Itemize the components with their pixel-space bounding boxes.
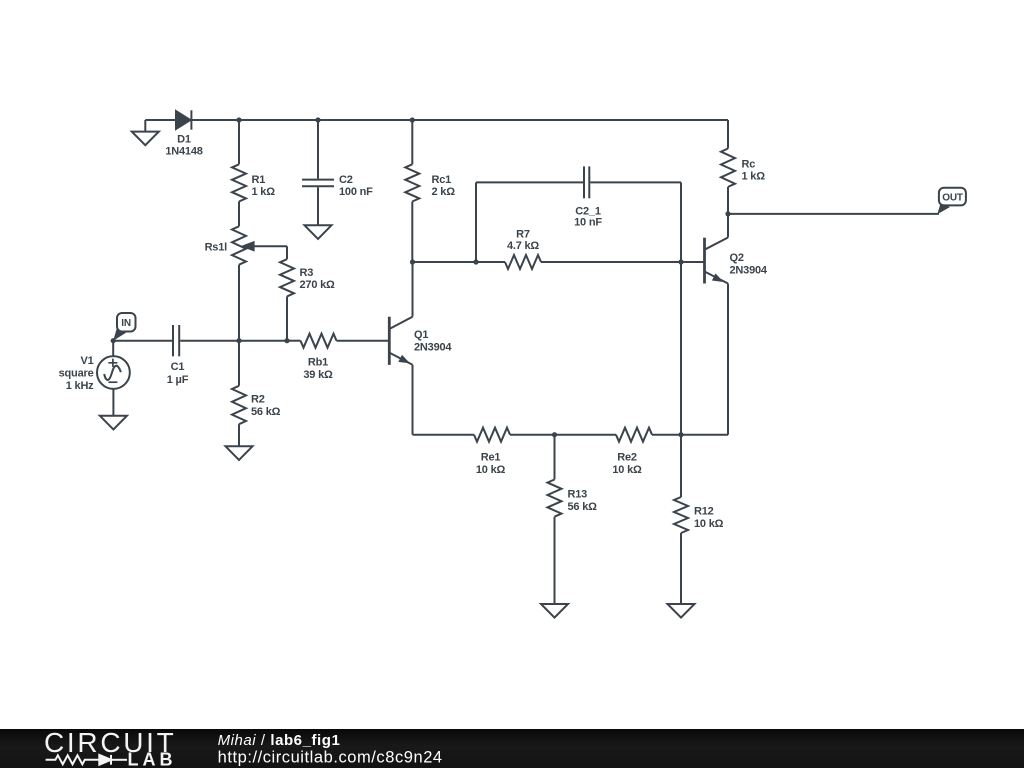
svg-text:10 nF: 10 nF <box>574 217 602 229</box>
Re1 labels (Re1 / 10 kΩ) <box>476 452 506 477</box>
resistor Rc <box>721 149 735 214</box>
svg-text:LAB: LAB <box>128 750 177 768</box>
wire: emitter rail R13 to Re2 <box>555 434 617 436</box>
svg-text:V1: V1 <box>80 355 93 367</box>
wire: middle row (collector to R7) <box>413 261 506 263</box>
ground (below R13) <box>541 604 568 618</box>
ground (below R2) <box>226 446 253 460</box>
svg-text:1 kΩ: 1 kΩ <box>742 171 766 183</box>
svg-text:R1: R1 <box>252 174 266 186</box>
OUT flag text <box>942 192 963 203</box>
svg-text:10 kΩ: 10 kΩ <box>476 464 506 476</box>
svg-text:Q2: Q2 <box>730 252 744 264</box>
R3 labels (R3 / 270 kΩ) <box>300 267 336 291</box>
svg-text:http://circuitlab.com/c8c9n24: http://circuitlab.com/c8c9n24 <box>218 748 443 766</box>
node: C2_1 left bracket junction <box>473 259 478 264</box>
svg-text:IN: IN <box>121 318 131 329</box>
svg-text:Re1: Re1 <box>481 452 501 464</box>
resistor R3 <box>280 246 294 341</box>
wire: middle row to Q2 base <box>681 261 705 263</box>
node: rail/C2 junction <box>315 117 320 122</box>
flag OUT <box>937 188 966 215</box>
capacitor C2 <box>302 120 334 225</box>
wire: emitter rail to Q2 emitter <box>681 434 728 436</box>
node: C1/R1-R2 column junction <box>236 338 241 343</box>
svg-text:R12: R12 <box>694 506 714 518</box>
resistor R2 <box>232 341 246 447</box>
svg-text:270 kΩ: 270 kΩ <box>300 279 336 291</box>
svg-text:39 kΩ: 39 kΩ <box>303 369 333 381</box>
node: R3 bottom junction <box>284 338 289 343</box>
IN flag text <box>121 318 131 329</box>
capacitor C2_1 <box>476 166 681 262</box>
wire: emitter rail Q1 to Re1 <box>413 434 475 436</box>
CircuitLab logo schematic line (resistor + diode + LAB) <box>46 755 127 765</box>
wire: output wire <box>728 213 939 215</box>
resistor R12 <box>674 435 688 604</box>
svg-text:Rc: Rc <box>742 159 756 171</box>
svg-text:D1: D1 <box>177 134 191 146</box>
transistor Q2 <box>705 214 729 435</box>
Rb1 labels (Rb1 / 39 kΩ) <box>303 357 333 382</box>
ground (below R12) <box>668 604 695 618</box>
diode D1 <box>176 110 191 129</box>
svg-text:R3: R3 <box>300 267 314 279</box>
node: R12/Q2 emitter junction <box>678 432 683 437</box>
V1 labels (V1 / square / 1 kHz) <box>59 355 95 392</box>
R13 labels (R13 / 56 kΩ) <box>568 489 598 514</box>
svg-text:C2: C2 <box>339 174 353 186</box>
voltage source V1 <box>97 341 130 416</box>
wire: rail down to Rc <box>727 120 729 149</box>
svg-text:R7: R7 <box>516 229 530 241</box>
node: Rc1/Q1 collector junction <box>410 259 415 264</box>
svg-text:2 kΩ: 2 kΩ <box>432 186 456 198</box>
R7 labels (R7 / 4.7 kΩ) <box>507 229 539 253</box>
R2 labels (R2 / 56 kΩ) <box>251 394 281 419</box>
svg-text:1N4148: 1N4148 <box>165 145 202 157</box>
resistor R7 <box>505 255 681 269</box>
C1 labels (C1 / 1 µF) <box>167 361 189 386</box>
svg-text:56 kΩ: 56 kΩ <box>568 501 598 513</box>
CircuitLab logo wordmark <box>44 727 176 758</box>
ground (below V1) <box>100 416 127 430</box>
svg-text:Mihai / lab6_fig1: Mihai / lab6_fig1 <box>218 732 341 749</box>
svg-text:4.7 kΩ: 4.7 kΩ <box>507 240 539 252</box>
svg-text:C1: C1 <box>171 361 185 373</box>
node: R13 junction <box>552 432 557 437</box>
Q1 labels (Q1 / 2N3904) <box>414 329 452 354</box>
Rs1l label <box>205 242 228 254</box>
svg-text:square: square <box>59 368 94 380</box>
svg-text:10 kΩ: 10 kΩ <box>612 464 642 476</box>
resistor Re1 <box>474 428 555 442</box>
node: Rc/Q2 collector/output junction <box>725 211 730 216</box>
svg-text:R2: R2 <box>251 394 265 406</box>
svg-text:Rb1: Rb1 <box>308 357 328 369</box>
svg-text:Rs1l: Rs1l <box>205 242 228 254</box>
node: C2_1 right bracket junction <box>678 259 683 264</box>
capacitor C1 <box>113 325 239 356</box>
wire: top power rail <box>145 119 728 121</box>
svg-text:Rc1: Rc1 <box>432 174 452 186</box>
node: IN / V1 junction <box>111 338 116 343</box>
svg-text:1 kΩ: 1 kΩ <box>252 186 276 198</box>
svg-text:10 kΩ: 10 kΩ <box>694 518 724 530</box>
ground (top-left, at D1 anode) <box>132 120 159 145</box>
resistor R1 <box>232 120 246 226</box>
svg-text:100 nF: 100 nF <box>339 186 373 198</box>
Q2 labels (Q2 / 2N3904) <box>730 252 768 277</box>
resistor Re2 <box>616 428 681 442</box>
Rc labels (Rc / 1 kΩ) <box>742 159 766 183</box>
D1 value labels (D1 / 1N4148) <box>165 134 202 158</box>
ground (below C2) <box>305 225 332 239</box>
svg-text:1 kHz: 1 kHz <box>66 380 94 392</box>
svg-text:R13: R13 <box>568 489 588 501</box>
R12 labels (R12 / 10 kΩ) <box>694 506 724 531</box>
svg-text:Re2: Re2 <box>617 452 637 464</box>
footer bar <box>0 729 1024 768</box>
resistor Rc1 <box>405 120 419 262</box>
svg-text:OUT: OUT <box>942 192 963 203</box>
wire: right column C2_1 to emitter rail <box>680 262 682 435</box>
C2 labels (C2 / 100 nF) <box>339 174 373 198</box>
Rc1 labels (Rc1 / 2 kΩ) <box>432 174 456 198</box>
svg-text:56 kΩ: 56 kΩ <box>251 406 281 418</box>
svg-text:Q1: Q1 <box>414 329 428 341</box>
node: rail/R1 junction <box>236 117 241 122</box>
wire: input row to R3 column <box>239 340 287 342</box>
svg-text:2N3904: 2N3904 <box>414 342 452 354</box>
Re2 labels (Re2 / 10 kΩ) <box>612 452 642 477</box>
transistor Q1 <box>389 262 412 435</box>
svg-text:2N3904: 2N3904 <box>730 265 768 277</box>
potentiometer Rs1l <box>232 226 287 340</box>
resistor R13 <box>548 435 562 604</box>
svg-text:1 µF: 1 µF <box>167 374 189 386</box>
node: rail/Rc1 junction <box>410 117 415 122</box>
flag IN <box>113 313 135 341</box>
R1 labels (R1 / 1 kΩ) <box>252 174 276 198</box>
resistor Rb1 <box>287 334 389 348</box>
C2_1 labels (C2_1 / 10 nF) <box>574 206 602 229</box>
